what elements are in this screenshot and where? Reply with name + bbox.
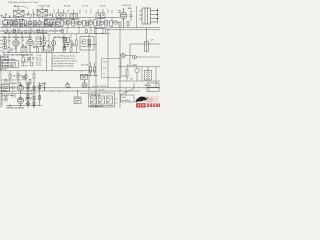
resistor R13 — [75, 40, 77, 46]
lamp H2 — [133, 55, 137, 59]
red stamp 1 — [136, 103, 140, 107]
component cluster row1 a — [8, 20, 42, 26]
svg-text:C6 220: C6 220 — [36, 65, 42, 67]
crossbar V1-V2 — [89, 44, 96, 46]
label box bottom-right — [121, 95, 135, 102]
component stack V5 — [63, 38, 70, 50]
svg-text:BoDuanKaiGuan: BoDuanKaiGuan — [90, 106, 103, 108]
svg-text:470 51k .01 220 3k 680p 100 51: 470 51k .01 220 3k 680p 100 51k .02 330 … — [2, 25, 64, 28]
svg-text:B1a: B1a — [14, 6, 17, 8]
svg-text:R10: R10 — [70, 41, 73, 43]
svg-text:B5: B5 — [81, 42, 83, 44]
svg-text:220k 0.01 6K4 100p 6A2 470 B2a: 220k 0.01 6K4 100p 6A2 470 B2a — [3, 36, 33, 39]
notes text block — [52, 56, 78, 68]
IF transformer B3 — [96, 9, 105, 19]
svg-text:C32 R26 W4 C33 R27: C32 R26 W4 C33 R27 — [2, 83, 20, 85]
speaker SP — [82, 80, 87, 88]
svg-text:C6 R5 C7 B1 C8 R6 C9 L3 C10 R7: C6 R5 C7 B1 C8 R6 C9 L3 C10 R7 C11 — [44, 19, 78, 21]
wire rail right-low — [118, 80, 160, 82]
wire rail bottom A — [0, 87, 160, 89]
callout vertical — [47, 50, 53, 71]
red text slits — [147, 105, 157, 106]
wire drops to rail T2 — [5, 24, 112, 28]
svg-text:W3 C20: W3 C20 — [21, 55, 28, 57]
svg-text:K2: K2 — [116, 99, 118, 101]
caps between tubes — [22, 44, 51, 48]
pink haze — [145, 96, 159, 103]
svg-text:3 4: 3 4 — [99, 97, 101, 100]
wire stub bottom-right — [126, 83, 134, 95]
wire drop x78 — [77, 91, 79, 97]
svg-text:0.01: 0.01 — [62, 38, 66, 40]
svg-text:1k: 1k — [81, 70, 83, 72]
capacitor C1 — [27, 12, 32, 17]
output transformer box B5 — [80, 37, 94, 51]
svg-text:C31 R25: C31 R25 — [21, 65, 28, 67]
small box right-bottom — [147, 83, 159, 92]
antenna coil L1 — [14, 8, 25, 19]
wire links top band — [2, 22, 120, 24]
svg-text:6Z4: 6Z4 — [130, 79, 133, 81]
svg-text:B3 6K4: B3 6K4 — [64, 6, 70, 8]
wire vertical bus V2 — [95, 28, 97, 108]
column labels bottom-left — [26, 83, 32, 105]
wire right section top — [119, 28, 121, 44]
wire rail T1 — [2, 17, 120, 19]
wire rail lowest — [6, 105, 42, 107]
ink blob — [136, 97, 147, 102]
row2 small parts — [7, 28, 103, 34]
left-mid marks — [2, 56, 33, 67]
svg-text:R29: R29 — [122, 75, 125, 77]
lower box R20 — [74, 97, 81, 104]
bus label box — [102, 59, 122, 78]
svg-text:220V 6.3V: 220V 6.3V — [122, 5, 132, 7]
bl extra marks2 — [9, 94, 34, 107]
tube V7 — [17, 95, 23, 106]
svg-text:R30 C38: R30 C38 — [81, 64, 88, 66]
wire rail bottom B — [0, 90, 140, 92]
junction dots — [89, 27, 109, 45]
wire drops top band — [5, 17, 112, 28]
svg-text:C37: C37 — [148, 85, 151, 87]
component cluster row1 b — [44, 20, 117, 26]
svg-text:1k 0.05: 1k 0.05 — [25, 100, 31, 102]
switch matrix box — [89, 93, 115, 107]
left column stack — [3, 39, 7, 49]
tube V4 — [41, 34, 46, 51]
callout texts — [36, 55, 42, 67]
red watermark text — [147, 104, 160, 107]
wire vertical bus V3 — [107, 30, 109, 89]
resistor R23 — [126, 67, 128, 81]
svg-text:dianlutu: dianlutu — [147, 100, 153, 103]
svg-text:K2a K2b K2c: K2a K2b K2c — [90, 95, 101, 97]
svg-text:C2 B1b: C2 B1b — [38, 6, 44, 8]
wire right verticals — [142, 67, 156, 88]
switch inner marks — [90, 98, 114, 106]
components under rail left-mid — [9, 71, 35, 84]
dashed box left — [3, 61, 19, 68]
terminal strip left — [1, 56, 9, 71]
tube V3 — [27, 34, 33, 53]
IF transformer B1 — [56, 9, 66, 19]
tube V1 top row — [3, 20, 8, 25]
component column bottom-left — [27, 82, 41, 108]
svg-text:A5: A5 — [116, 101, 118, 104]
switch inner text — [91, 97, 109, 103]
wire rail T3 — [0, 33, 110, 35]
marks above coil — [25, 12, 36, 18]
svg-text:6K4 100p 0.01 51k 6A2 220k 500: 6K4 100p 0.01 51k 6A2 220k 500p 0.02 1M … — [4, 31, 49, 34]
right edge terminals — [157, 9, 158, 24]
wire rail mid — [2, 52, 80, 54]
transformer B5 — [145, 67, 152, 80]
wire lamps — [120, 56, 160, 58]
svg-text:C2 R3 L2 C4 W1 C5 R4: C2 R3 L2 C4 W1 C5 R4 — [4, 18, 25, 21]
wire rail T2b right — [106, 29, 160, 31]
box bottom-left — [2, 85, 10, 92]
wire rail bottom C — [0, 92, 88, 94]
wire left edge — [0, 55, 2, 108]
svg-text:C14: C14 — [46, 41, 49, 43]
svg-text:DiZhi: DiZhi — [122, 97, 127, 99]
wire rail left-mid — [0, 70, 95, 72]
svg-text:R19 C24: R19 C24 — [25, 93, 32, 95]
lamp H1 — [121, 53, 126, 58]
small parts tube row extra — [11, 48, 72, 53]
wire drops tube row — [9, 34, 71, 53]
svg-text:1 2: 1 2 — [91, 98, 93, 100]
svg-text:C15 R9: C15 R9 — [82, 6, 88, 8]
svg-text:ShuoMing: ShuoMing — [122, 100, 131, 102]
box right of row2 — [95, 29, 106, 34]
power transformer B4 — [139, 8, 158, 24]
ink blob tail — [135, 100, 139, 102]
svg-text:0.05 220: 0.05 220 — [98, 90, 105, 92]
bottom-left extra marks — [2, 82, 28, 106]
left edge column marks — [0, 21, 5, 51]
wire rail T2 — [0, 27, 160, 29]
capacitor C27 — [118, 10, 133, 26]
svg-text:wanyongbiao DC liang de: wanyongbiao DC liang de — [52, 66, 74, 68]
rectifier V9 — [135, 67, 139, 81]
svg-text:R6 1k: R6 1k — [26, 104, 31, 106]
wire stub — [75, 34, 77, 53]
mid cluster resistors — [80, 62, 98, 76]
svg-text:4.7k 0.02: 4.7k 0.02 — [21, 61, 28, 63]
svg-text:680: 680 — [14, 48, 17, 50]
cap C3 top — [49, 13, 53, 18]
small parts under tubes — [8, 47, 54, 52]
power box outline — [130, 44, 160, 64]
svg-text:XXPaiShouYinJiDianLuTu 5Guan: XXPaiShouYinJiDianLuTu 5Guan — [8, 2, 40, 4]
resistor R1 — [11, 21, 13, 26]
electrolytic C28 — [145, 28, 149, 52]
wire vertical bus V1 — [88, 34, 90, 91]
band switch box S1 — [36, 37, 45, 47]
svg-text:C1: C1 — [26, 7, 28, 9]
svg-text:5 6: 5 6 — [107, 98, 109, 100]
tube V6 — [17, 82, 23, 94]
IF transformer B2 — [70, 10, 78, 19]
wire vertical x136 — [136, 6, 138, 28]
svg-text:.05: .05 — [44, 50, 46, 52]
tube V8 right top — [120, 8, 127, 27]
diagonal wire — [120, 89, 134, 96]
svg-text:R8: R8 — [22, 40, 24, 42]
dense block x44-54 — [44, 20, 53, 27]
tube V2 — [13, 34, 19, 53]
svg-text:ShouYin DiZhi: ShouYin DiZhi — [3, 59, 16, 61]
svg-text:B4 6P1: B4 6P1 — [100, 6, 106, 8]
box above speaker — [81, 74, 88, 79]
svg-text:B2 6A2: B2 6A2 — [44, 5, 50, 8]
pickup arm P1 — [41, 82, 47, 91]
extra small marks row — [5, 57, 33, 83]
svg-text:47k .02: 47k .02 — [26, 90, 32, 93]
wire ticks above T1 — [33, 9, 112, 14]
wire rail right-mid — [118, 66, 160, 68]
antenna input marks — [1, 13, 12, 18]
antenna coil L2 — [37, 7, 48, 18]
svg-text:K3: K3 — [148, 90, 150, 92]
svg-text:C34 R28 0.25 680 W2: C34 R28 0.25 680 W2 — [6, 106, 24, 109]
svg-text:C28: C28 — [150, 40, 153, 42]
wire vertical bus V4 — [119, 44, 121, 108]
svg-text:C12: C12 — [8, 41, 11, 43]
pot W3 — [22, 55, 30, 66]
ink blob dot — [147, 97, 148, 98]
red stamp 2 — [141, 103, 145, 107]
junction dots bottom rails — [27, 87, 96, 92]
svg-text:6Z4: 6Z4 — [128, 7, 131, 10]
svg-text:0.1 C8: 0.1 C8 — [2, 96, 7, 98]
svg-text:R21 C25 C26 R22: R21 C25 C26 R22 — [92, 86, 107, 88]
jack J1 — [66, 82, 70, 88]
small tube V5b — [71, 43, 74, 46]
tube V4b — [51, 38, 56, 51]
